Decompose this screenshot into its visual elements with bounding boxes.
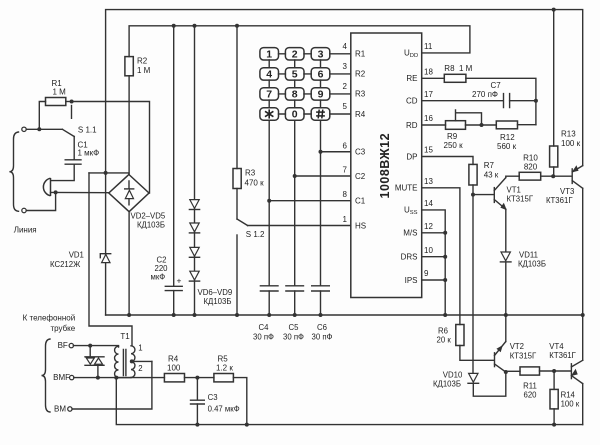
keypad button 1 bbox=[260, 48, 279, 60]
svg-text:560 к: 560 к bbox=[497, 142, 517, 151]
svg-text:250 к: 250 к bbox=[444, 141, 464, 150]
junction terminal wire / R1 branch bbox=[37, 127, 41, 131]
svg-text:4: 4 bbox=[266, 69, 272, 81]
capacitor C6 bbox=[312, 286, 330, 291]
wire C2 bottom to ground bus bbox=[173, 291, 175, 315]
wire R8 right down to R12 node bbox=[466, 78, 536, 124]
wire R7 bottom to VT1 base bbox=[472, 185, 474, 195]
wire pin 13 MUTE down to R6 bbox=[422, 188, 460, 325]
wire keypad column 2 down to C5 bbox=[294, 120, 296, 286]
wire R1 right bbox=[66, 101, 72, 103]
wire keypad row 2 to pin R2 bbox=[330, 73, 351, 75]
zener diode VD1 bbox=[100, 254, 110, 258]
junction R5 / bottom rail bbox=[245, 423, 249, 427]
wire pin 14 Uss down bbox=[422, 210, 446, 315]
svg-text:R12: R12 bbox=[500, 133, 515, 142]
svg-text:мкФ: мкФ bbox=[151, 273, 166, 282]
junction BMF wire / bottom rail branch bbox=[114, 376, 118, 380]
svg-text:HS: HS bbox=[355, 221, 366, 230]
junction Udd rail / R3 branch bbox=[235, 24, 239, 28]
node VT2 collector junction bbox=[504, 370, 508, 374]
svg-text:+: + bbox=[177, 276, 182, 286]
svg-text:14: 14 bbox=[424, 199, 433, 208]
wire R10 right to VT3 base bbox=[541, 175, 572, 177]
wire keypad column 1 connectors bbox=[268, 60, 270, 108]
transformer T1 secondary winding bbox=[131, 346, 135, 378]
svg-text:3: 3 bbox=[343, 62, 348, 71]
wire bridge top to left branch bbox=[89, 173, 129, 174]
svg-text:VT2: VT2 bbox=[510, 342, 524, 351]
resistor R13 bbox=[550, 146, 558, 167]
wire R6 bottom to VT2 base bbox=[460, 346, 494, 361]
svg-text:T1: T1 bbox=[120, 332, 130, 341]
svg-text:1 М: 1 М bbox=[137, 66, 151, 75]
wire earpiece bottom to bridge left corner bbox=[51, 191, 109, 193]
transistor VT1 bbox=[493, 188, 495, 203]
svg-text:20 к: 20 к bbox=[437, 336, 452, 345]
svg-text:30 пФ: 30 пФ bbox=[312, 333, 333, 342]
svg-text:R13: R13 bbox=[561, 130, 576, 139]
svg-text:3: 3 bbox=[318, 48, 324, 60]
wire R11 right to VT4 base bbox=[540, 370, 571, 372]
capacitor C2 (electrolytic) bbox=[165, 286, 182, 290]
resistor R10 bbox=[519, 172, 541, 180]
svg-text:1.2 к: 1.2 к bbox=[216, 364, 233, 373]
svg-text:15: 15 bbox=[424, 146, 433, 155]
svg-text:43 к: 43 к bbox=[484, 171, 499, 180]
junction Udd rail / C2 branch bbox=[172, 24, 176, 28]
wire keypad row 1 to pin R1 bbox=[330, 53, 351, 55]
resistor R8 bbox=[444, 74, 466, 82]
wire R14 bottom to bottom rail bbox=[553, 409, 555, 425]
svg-text:R14: R14 bbox=[561, 391, 576, 400]
svg-text:100 к: 100 к bbox=[561, 139, 581, 148]
svg-text:270 пФ: 270 пФ bbox=[472, 90, 498, 99]
wire R1 junction to bridge right corner bbox=[72, 102, 150, 194]
wire R4 to R5 bbox=[185, 377, 214, 379]
resistor R9 bbox=[446, 121, 466, 130]
wire to line terminal bottom bbox=[26, 192, 55, 210]
svg-text:КТ361Г: КТ361Г bbox=[546, 196, 573, 205]
resistor R3 bbox=[233, 169, 241, 189]
wire R13 top from frame bbox=[553, 10, 555, 146]
junction R4 / R5 / C3 bbox=[195, 376, 199, 380]
resistor R1 bbox=[46, 98, 66, 106]
wire ground bus (horizontal, mid) bbox=[106, 314, 583, 316]
svg-text:R4: R4 bbox=[355, 110, 366, 119]
wire VD11 to ground bus bbox=[505, 262, 507, 315]
resistor R11 bbox=[520, 367, 540, 375]
svg-text:9: 9 bbox=[318, 89, 324, 101]
svg-text:11: 11 bbox=[424, 42, 433, 51]
svg-text:7: 7 bbox=[343, 166, 348, 175]
svg-text:16: 16 bbox=[424, 114, 433, 123]
svg-text:MUTE: MUTE bbox=[395, 184, 418, 193]
diode VD8 bbox=[190, 247, 199, 256]
wire pin 15 to R7 top bbox=[422, 157, 473, 165]
wire R3 top from Udd rail bbox=[236, 26, 238, 169]
wire S1.1 fixed contact stub bbox=[71, 106, 73, 119]
svg-text:18: 18 bbox=[424, 68, 433, 77]
diode VD7 bbox=[190, 223, 199, 232]
resistor R7 bbox=[469, 164, 477, 185]
svg-text:2: 2 bbox=[138, 364, 142, 373]
diode VD9 bbox=[190, 271, 199, 280]
svg-text:КД103Б: КД103Б bbox=[518, 260, 546, 269]
svg-text:КТ315Г: КТ315Г bbox=[507, 195, 534, 204]
svg-text:C5: C5 bbox=[289, 323, 300, 332]
wire pin 17 to C7 bbox=[422, 100, 504, 102]
svg-text:C4: C4 bbox=[259, 323, 270, 332]
junction C2 / ground bus bbox=[172, 313, 176, 317]
svg-text:1: 1 bbox=[266, 48, 272, 60]
junction pin 10 / Uss line bbox=[443, 255, 447, 259]
svg-text:VD1: VD1 bbox=[69, 251, 84, 260]
wire R12 right to node bbox=[518, 124, 536, 126]
svg-text:10: 10 bbox=[424, 246, 433, 255]
terminal BMF (open circle) bbox=[70, 375, 74, 379]
wire VT3 collector down right rail bbox=[582, 188, 584, 315]
svg-text:7: 7 bbox=[266, 89, 272, 101]
wire VT1 emitter down to VD11 bbox=[505, 209, 507, 252]
svg-text:0: 0 bbox=[292, 109, 298, 121]
svg-text:КД103Б: КД103Б bbox=[433, 380, 461, 389]
svg-text:R3: R3 bbox=[245, 169, 256, 178]
wire line terminal to S1.1 bbox=[26, 128, 62, 130]
svg-text:IPS: IPS bbox=[405, 276, 418, 285]
svg-text:9: 9 bbox=[424, 269, 429, 278]
keypad button 4 bbox=[260, 68, 279, 80]
keypad button 7 bbox=[260, 88, 279, 100]
svg-text:C1: C1 bbox=[355, 197, 366, 206]
svg-text:12: 12 bbox=[424, 222, 433, 231]
capacitor C4 bbox=[260, 286, 278, 291]
svg-text:VD10: VD10 bbox=[443, 371, 463, 380]
svg-text:DP: DP bbox=[406, 152, 417, 161]
svg-text:VT4: VT4 bbox=[549, 342, 564, 351]
terminal BF (open circle) bbox=[69, 343, 73, 347]
switch S1.2 arm bbox=[237, 219, 248, 226]
junction C3 / bottom rail bbox=[195, 423, 199, 427]
wire VT1 base link bbox=[473, 194, 494, 196]
IC D1 1008ВЖ12 bbox=[351, 33, 422, 298]
transistor VT3 bbox=[571, 169, 573, 184]
capacitor C5 bbox=[286, 286, 304, 291]
capacitor C3 bbox=[191, 400, 205, 404]
brace line group bbox=[9, 132, 18, 211]
keypad button hash bbox=[311, 108, 330, 120]
junction Uss line / ground bus bbox=[443, 313, 447, 317]
resistor R4 bbox=[164, 374, 184, 382]
wire R5 right down to bottom rail bbox=[233, 378, 246, 425]
resistor R12 bbox=[496, 121, 517, 129]
wire keypad row 2 connectors bbox=[279, 73, 312, 75]
wire C3 bottom to bottom rail bbox=[196, 404, 198, 425]
wire VT4 collector up to ground bus bbox=[582, 315, 584, 360]
svg-text:R5: R5 bbox=[218, 355, 229, 364]
junction frame / bridge top wire bbox=[104, 171, 108, 175]
svg-text:DRS: DRS bbox=[401, 253, 418, 262]
svg-text:1 мкФ: 1 мкФ bbox=[78, 149, 100, 158]
wire S1.2 lower contact to ground bus bbox=[236, 235, 238, 315]
svg-text:К телефонной: К телефонной bbox=[23, 314, 76, 323]
svg-text:КД103Б: КД103Б bbox=[137, 221, 165, 230]
wire pin HS line bbox=[248, 225, 351, 227]
junction VD9 / ground bus bbox=[193, 313, 197, 317]
svg-text:BM: BM bbox=[54, 405, 66, 414]
wire T1 tap to BM line bbox=[131, 360, 152, 362]
wire BM to T1 tap bbox=[72, 361, 152, 409]
wire BMF common to R4 bbox=[74, 377, 165, 379]
junction C7 / R8 / R12 node bbox=[534, 99, 538, 103]
diode VD10 bbox=[469, 373, 478, 382]
wire C7 right to R8/R12 node bbox=[510, 100, 536, 102]
wire C1 to earpiece bbox=[51, 164, 74, 180]
svg-text:S 1.2: S 1.2 bbox=[246, 230, 265, 239]
svg-text:VT3: VT3 bbox=[560, 187, 574, 196]
keypad button star bbox=[260, 108, 279, 120]
bridge rectifier VD2-VD5 bbox=[109, 175, 149, 212]
svg-text:30 пФ: 30 пФ bbox=[253, 333, 274, 342]
wire Udd rail from R2 to pin 11 bbox=[129, 26, 470, 57]
svg-text:30 пФ: 30 пФ bbox=[283, 333, 304, 342]
junction R7 / VT1 base / VD10 bbox=[471, 193, 475, 197]
svg-text:VD11: VD11 bbox=[519, 251, 538, 260]
svg-text:трубке: трубке bbox=[50, 324, 75, 333]
brace handset group bbox=[42, 339, 51, 412]
wire VT4 emitter down to bottom rail bbox=[582, 384, 584, 425]
wire pin C1 line bbox=[269, 200, 351, 202]
svg-text:6: 6 bbox=[318, 69, 324, 81]
wire VD6-VD9 chain from Udd rail bbox=[194, 26, 196, 315]
svg-text:2: 2 bbox=[343, 82, 348, 91]
terminal line top (open circle) bbox=[22, 127, 26, 131]
svg-text:17: 17 bbox=[424, 90, 433, 99]
svg-text:100 к: 100 к bbox=[561, 400, 580, 409]
svg-text:C3: C3 bbox=[208, 393, 218, 402]
junction S1.2 line / ground bus bbox=[235, 313, 239, 317]
wire pin 16 to R9 bbox=[422, 124, 446, 126]
svg-text:1: 1 bbox=[343, 215, 348, 224]
transistor VT2 bbox=[494, 353, 496, 367]
keypad button 3 bbox=[311, 48, 330, 60]
svg-text:C3: C3 bbox=[355, 148, 366, 157]
junction BMF wire / diode pair bbox=[96, 376, 100, 380]
wire pin 10 stub bbox=[422, 256, 446, 258]
wire VT2 node to R11 bbox=[506, 370, 520, 372]
wire C2 top from Udd rail bbox=[173, 26, 175, 286]
junction BF wire / diode pair bbox=[88, 344, 92, 348]
earpiece BA1 (handset capsule) bbox=[43, 178, 50, 196]
wire T1 secondary bottom to common bbox=[119, 377, 132, 379]
svg-text:8: 8 bbox=[343, 190, 348, 199]
wire VD10 branch from VT1 base node bbox=[472, 195, 474, 374]
junction column 1 / C1 line bbox=[267, 199, 271, 203]
junction R9 / R12 / tap bbox=[480, 123, 484, 127]
svg-text:VT1: VT1 bbox=[507, 186, 521, 195]
svg-text:R3: R3 bbox=[355, 90, 366, 99]
svg-text:R7: R7 bbox=[484, 161, 495, 170]
wire R2 bottom to bridge top bbox=[128, 76, 130, 174]
svg-text:2: 2 bbox=[292, 48, 298, 60]
wire keypad column 1 down to C4 bbox=[268, 120, 270, 286]
wire R9 right to R12 bbox=[466, 124, 497, 126]
resistor R5 bbox=[214, 374, 234, 382]
wire R9 tap link bbox=[456, 110, 482, 125]
keypad button 9 bbox=[311, 88, 330, 100]
wire R1 left to line terminal bbox=[39, 102, 45, 130]
wire bridge bottom to ground bus bbox=[128, 212, 130, 315]
wire keypad column 2 connectors bbox=[294, 60, 296, 108]
wire pin C3 line bbox=[321, 151, 351, 153]
wire keypad row 3 to pin R3 bbox=[330, 93, 351, 95]
svg-text:Линия: Линия bbox=[14, 226, 37, 235]
keypad button 8 bbox=[285, 88, 304, 100]
svg-text:R4: R4 bbox=[168, 355, 179, 364]
svg-text:R2: R2 bbox=[137, 57, 148, 66]
svg-text:C7: C7 bbox=[491, 81, 502, 90]
junction R14 / bottom rail bbox=[552, 423, 556, 427]
wire pin 9 stub bbox=[422, 279, 446, 281]
terminal BM (open circle) bbox=[68, 407, 72, 411]
wire C3 top bbox=[196, 378, 198, 400]
svg-text:1008ВЖ12: 1008ВЖ12 bbox=[378, 133, 392, 199]
wire pin C2 line bbox=[295, 175, 351, 177]
svg-text:R9: R9 bbox=[447, 132, 458, 141]
svg-text:6: 6 bbox=[343, 141, 348, 150]
svg-text:R1: R1 bbox=[355, 50, 366, 59]
wire bottom rail bbox=[116, 378, 582, 425]
junction Udd rail / VD6 branch bbox=[193, 24, 197, 28]
junction pin 12 / Uss line bbox=[443, 231, 447, 235]
wire keypad column 3 down to C6 bbox=[320, 120, 322, 286]
wire S1.1 to C1 bbox=[73, 137, 75, 159]
svg-text:4: 4 bbox=[343, 42, 348, 51]
wire keypad row 1 connectors bbox=[279, 53, 312, 55]
svg-text:0.47 мкФ: 0.47 мкФ bbox=[208, 405, 240, 414]
svg-text:BF: BF bbox=[58, 341, 68, 350]
svg-text:M/S: M/S bbox=[403, 229, 417, 238]
svg-text:R6: R6 bbox=[438, 327, 448, 336]
transformer T1 core bbox=[123, 350, 126, 376]
wire top supply rail (frame top) bbox=[106, 10, 583, 315]
wire bridge left branch down to T1 secondary bbox=[89, 173, 132, 345]
svg-text:CD: CD bbox=[406, 97, 418, 106]
wire pin 18 to R8 bbox=[422, 77, 445, 79]
wire VT1 collector to R10 bbox=[506, 176, 519, 177]
junction column 2 / C2 line bbox=[293, 174, 297, 178]
svg-text:КТ361Г: КТ361Г bbox=[549, 351, 576, 360]
capacitor C7 bbox=[504, 94, 510, 108]
keypad button 6 bbox=[311, 68, 330, 80]
svg-text:VD6–VD9: VD6–VD9 bbox=[198, 288, 233, 297]
wire R13 bottom bbox=[553, 167, 555, 176]
keypad button 2 bbox=[285, 48, 304, 60]
junction column 3 / C3 line bbox=[319, 150, 323, 154]
wire R14 top bbox=[553, 371, 555, 389]
wire keypad row 3 connectors bbox=[279, 93, 312, 95]
switch S1.1 arm bbox=[62, 129, 74, 136]
junction pin 9 / Uss line bbox=[443, 278, 447, 282]
svg-text:КТ315Г: КТ315Г bbox=[510, 352, 537, 361]
diode VD6 bbox=[190, 200, 199, 209]
wire keypad column 3 connectors bbox=[320, 60, 322, 108]
svg-text:100: 100 bbox=[167, 364, 181, 373]
svg-text:820: 820 bbox=[524, 163, 538, 172]
svg-text:5: 5 bbox=[343, 102, 348, 111]
svg-text:470 к: 470 к bbox=[245, 179, 265, 188]
junction R10 / R13 / VT3 base bbox=[551, 174, 555, 178]
wire BF to T1 primary bbox=[73, 346, 118, 347]
junction R11 / R14 / VT4 base bbox=[552, 369, 556, 373]
svg-text:КС212Ж: КС212Ж bbox=[50, 260, 81, 269]
wire pin 12 stub bbox=[422, 232, 446, 234]
svg-text:1 M: 1 M bbox=[53, 88, 67, 97]
transistor VT4 bbox=[570, 364, 572, 379]
junction R13 / top rail bbox=[552, 8, 556, 12]
diode pair VD (handset, anti-parallel) bbox=[85, 357, 104, 366]
svg-text:S 1.1: S 1.1 bbox=[78, 126, 97, 135]
transformer T1 primary winding bbox=[115, 346, 119, 378]
svg-text:BMF: BMF bbox=[53, 373, 70, 382]
svg-text:R11: R11 bbox=[523, 382, 537, 391]
junction right rail / ground bus bbox=[581, 313, 585, 317]
svg-text:5: 5 bbox=[292, 69, 298, 81]
svg-text:C6: C6 bbox=[317, 323, 327, 332]
node R1 right junction bbox=[70, 100, 74, 104]
svg-text:VD2–VD5: VD2–VD5 bbox=[131, 212, 166, 221]
wire VT2 collector to ground bus bbox=[505, 315, 507, 342]
wire keypad row 4 connectors bbox=[279, 113, 312, 115]
resistor R6 bbox=[456, 325, 464, 346]
resistor R2 bbox=[125, 57, 133, 76]
junction VD11 / ground bus / VT2 collector bbox=[504, 313, 508, 317]
junction earpiece / lower terminal bbox=[54, 190, 58, 194]
diode VD11 bbox=[501, 252, 510, 261]
resistor R14 bbox=[550, 389, 558, 409]
svg-text:R10: R10 bbox=[523, 154, 538, 163]
svg-text:R2: R2 bbox=[355, 70, 366, 79]
wire R3 bottom bbox=[236, 189, 238, 220]
svg-text:RE: RE bbox=[406, 74, 417, 83]
svg-text:13: 13 bbox=[424, 177, 433, 186]
junction bridge bottom line / ground bus bbox=[127, 313, 131, 317]
junction T1 secondary tap bbox=[130, 359, 134, 363]
svg-text:C2: C2 bbox=[355, 172, 366, 181]
keypad button 0 bbox=[285, 108, 304, 120]
svg-text:620: 620 bbox=[523, 391, 537, 400]
svg-text:RD: RD bbox=[406, 121, 418, 130]
svg-text:R8 1 М: R8 1 М bbox=[444, 64, 472, 73]
svg-text:8: 8 bbox=[292, 89, 298, 101]
svg-text:КД103Б: КД103Б bbox=[204, 297, 232, 306]
capacitor C1 bbox=[65, 160, 81, 164]
wire VD10 bottom to VT2 collector node bbox=[473, 372, 506, 396]
svg-text:1: 1 bbox=[138, 344, 142, 353]
wire keypad row 4 to pin R4 bbox=[330, 113, 351, 115]
keypad button 5 bbox=[285, 68, 304, 80]
terminal line bottom (open circle) bbox=[22, 208, 26, 212]
